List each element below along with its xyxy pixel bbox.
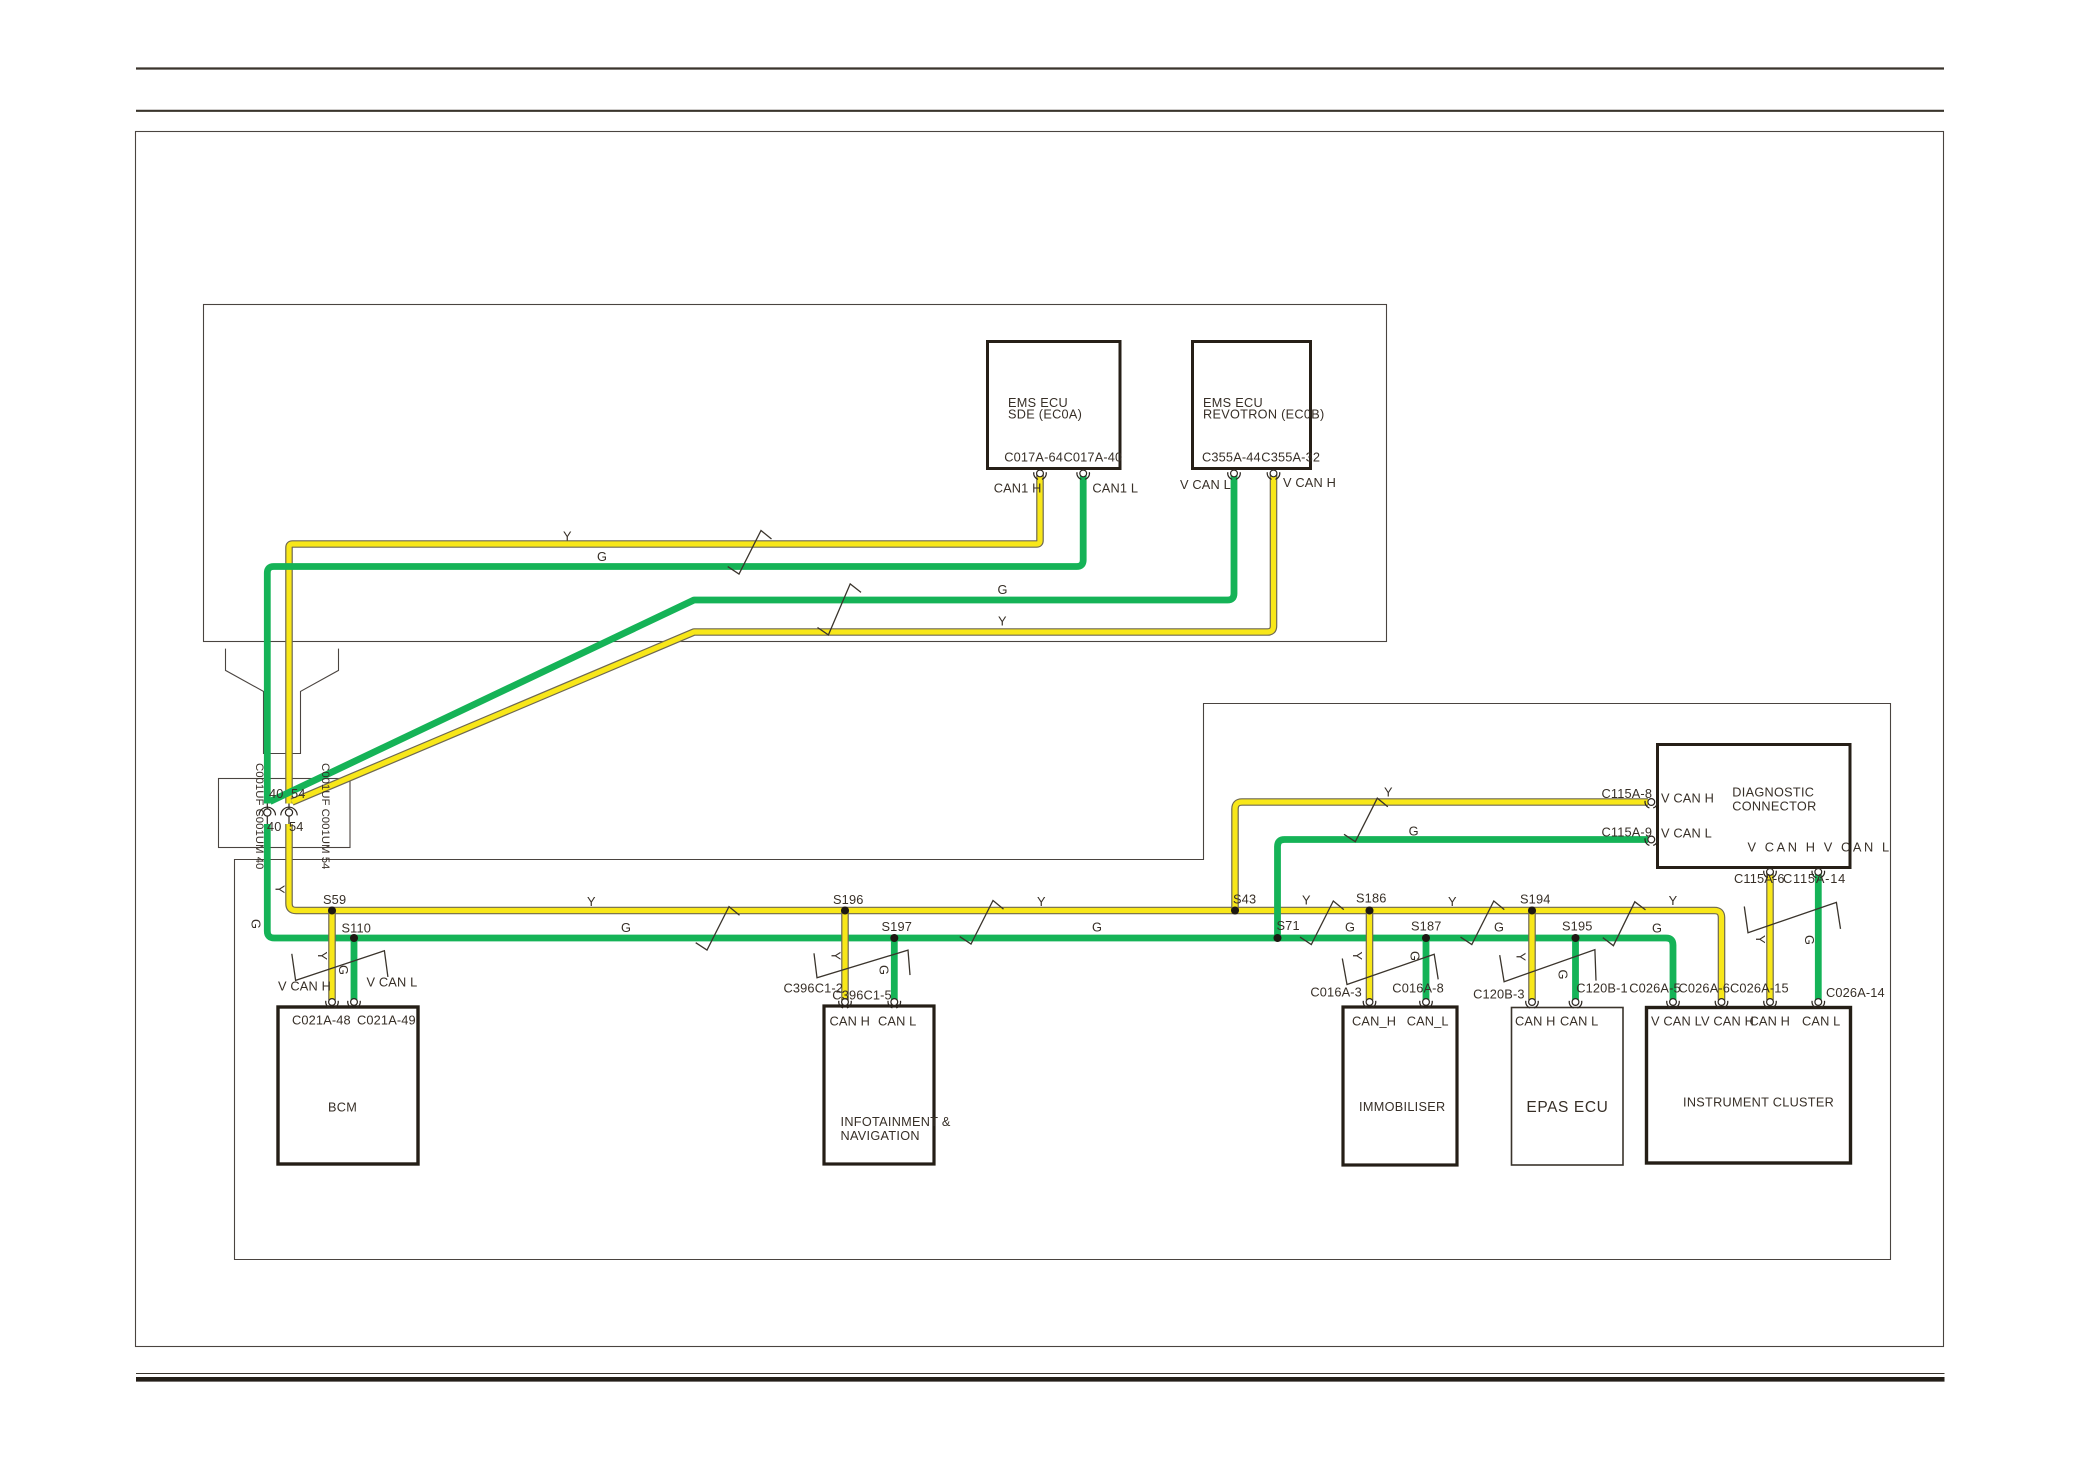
wire Y drop S59 to BCM C021A-48 [328, 911, 336, 1001]
wire V CAN H (EMS REVOTRON C355A-32 diagonal to connector pin 54) [292, 474, 1274, 802]
svg-text:Y: Y [1350, 952, 1365, 961]
box BCM [278, 1007, 418, 1164]
svg-text:C115A-14: C115A-14 [1783, 871, 1846, 886]
svg-text:C017A-40: C017A-40 [1064, 450, 1123, 465]
box EPAS ECU [1512, 1008, 1624, 1166]
terminal C355A-44 [1228, 470, 1241, 479]
svg-text:Y: Y [273, 885, 288, 894]
box INSTRUMENT CLUSTER [1647, 1008, 1851, 1164]
svg-text:S195: S195 [1562, 919, 1593, 934]
top rule 1 [136, 67, 1944, 69]
terminal C026A-6 [1715, 999, 1728, 1008]
svg-text:40: 40 [267, 819, 282, 834]
terminal C115A-14 [1812, 869, 1825, 878]
svg-text:C396C1-5: C396C1-5 [832, 988, 892, 1003]
svg-text:Y: Y [1753, 935, 1768, 944]
svg-text:C026A-5: C026A-5 [1629, 980, 1681, 995]
top harness box [204, 305, 1387, 642]
wire Y drop S196 to infotainment C396C1-2 [841, 911, 849, 1001]
svg-text:C001UF C001UM 40: C001UF C001UM 40 [253, 763, 265, 869]
svg-text:G: G [621, 920, 631, 935]
svg-text:G: G [998, 582, 1008, 597]
terminal C355A-32 [1267, 470, 1280, 479]
svg-text:C016A-8: C016A-8 [1392, 981, 1444, 996]
svg-text:S59: S59 [323, 892, 346, 907]
wire G drop C115A-14 to instrument cluster C026A-14 [1815, 871, 1822, 1000]
node S186 [1366, 907, 1374, 915]
twist marker immobiliser drops [1342, 954, 1438, 984]
bottom rule thick [136, 1377, 1945, 1382]
svg-text:V CAN H: V CAN H [1283, 475, 1336, 490]
terminal C021A-48 [326, 999, 339, 1008]
svg-text:V CAN L: V CAN L [1661, 826, 1712, 841]
twist marker pair CAN1 [728, 531, 772, 575]
wire Y main bus (connector pin 54 down to S59 corner, across to instrument cluster C026A-6) [289, 824, 1722, 1000]
svg-text:V CAN L: V CAN L [1180, 477, 1231, 492]
svg-text:G: G [1409, 824, 1419, 839]
twist marker bus S187-S194 [1461, 901, 1505, 945]
terminal C021A-49 [348, 999, 361, 1008]
svg-text:54: 54 [289, 819, 304, 834]
svg-text:G: G [1092, 920, 1102, 935]
svg-text:C115A-6: C115A-6 [1734, 871, 1785, 886]
wire V CAN L (EMS REVOTRON C355A-44 diagonal to connector pin 40) [270, 474, 1234, 802]
twist marker infotainment drops [814, 950, 910, 978]
yellow drops redrawn over green bus [332, 911, 1532, 1001]
svg-text:C016A-3: C016A-3 [1310, 985, 1362, 1000]
svg-text:C355A-44: C355A-44 [1202, 450, 1261, 465]
box EMS ECU SDE (EC0A) [988, 342, 1121, 469]
svg-text:Y: Y [587, 894, 596, 909]
box DIAGNOSTIC CONNECTOR [1658, 745, 1851, 868]
twist marker diagnostic drops [1744, 902, 1840, 932]
svg-text:CAN H: CAN H [830, 1014, 871, 1029]
svg-text:CAN H: CAN H [1750, 1014, 1791, 1029]
svg-text:C115A-8: C115A-8 [1602, 786, 1653, 801]
svg-text:G: G [249, 919, 264, 929]
terminal C016A-3 [1363, 999, 1376, 1008]
svg-text:INSTRUMENT CLUSTER: INSTRUMENT CLUSTER [1683, 1096, 1834, 1110]
wire Y drop S194 to EPAS C120B-3 [1528, 911, 1536, 1001]
box INFOTAINMENT & NAVIGATION [824, 1006, 934, 1164]
terminal C396C1-2 [839, 999, 852, 1008]
svg-text:V CAN L: V CAN L [367, 975, 418, 990]
svg-text:SDE (EC0A): SDE (EC0A) [1008, 408, 1082, 422]
twist marker bus S71-S186 [1300, 901, 1344, 945]
svg-text:INFOTAINMENT &: INFOTAINMENT & [841, 1115, 951, 1129]
svg-text:S186: S186 [1356, 891, 1387, 906]
node S43 [1231, 907, 1239, 915]
svg-text:54: 54 [291, 786, 306, 801]
twist marker bus S196-S43 [960, 901, 1004, 945]
svg-text:V CAN L: V CAN L [1651, 1014, 1702, 1029]
box IMMOBILISER [1343, 1007, 1457, 1165]
svg-text:DIAGNOSTIC: DIAGNOSTIC [1732, 786, 1814, 800]
svg-text:CAN1 H: CAN1 H [994, 481, 1042, 496]
svg-text:V CAN H V CAN L: V CAN H V CAN L [1748, 840, 1892, 855]
svg-text:C026A-14: C026A-14 [1826, 985, 1885, 1000]
svg-text:NAVIGATION: NAVIGATION [841, 1129, 920, 1143]
svg-text:S110: S110 [342, 921, 372, 936]
terminal C115A-6 [1764, 869, 1777, 878]
wire G drop S110 to BCM C021A-49 [351, 938, 358, 1000]
svg-text:C026A-15: C026A-15 [1730, 980, 1789, 995]
node S197 [890, 934, 898, 942]
svg-text:CAN_H: CAN_H [1352, 1014, 1396, 1029]
svg-text:G: G [1556, 970, 1571, 980]
twist marker pair C115A-8/9 [1344, 798, 1388, 842]
wire Y drop C115A-6 to instrument cluster C026A-15 [1766, 871, 1774, 1000]
svg-text:Y: Y [1448, 894, 1457, 909]
svg-text:S196: S196 [833, 892, 864, 907]
svg-text:G: G [1345, 920, 1355, 935]
wire Y drop S186 to immobiliser C016A-3 [1366, 911, 1374, 1001]
twist marker pair V CAN (EC0B) [818, 584, 862, 635]
twist marker bus S110-S196 [696, 907, 740, 951]
svg-text:V CAN H: V CAN H [1661, 791, 1714, 806]
harness funnel symbol [226, 649, 339, 754]
node S71 [1274, 934, 1282, 942]
twist marker bus S195-corner [1603, 902, 1646, 946]
node S187 [1422, 934, 1430, 942]
svg-text:CAN H: CAN H [1515, 1014, 1556, 1029]
svg-text:G: G [1652, 921, 1662, 936]
svg-text:S43: S43 [1233, 892, 1256, 907]
node S194 [1528, 907, 1536, 915]
svg-text:C001UF C001UM 54: C001UF C001UM 54 [319, 763, 331, 869]
svg-text:CAN L: CAN L [1560, 1014, 1598, 1029]
box EMS ECU REVOTRON (EC0B) [1193, 342, 1311, 469]
pin 54 of C001UF/C001UM [281, 804, 297, 825]
svg-text:S194: S194 [1520, 892, 1551, 907]
terminal C017A-64 [1034, 470, 1047, 479]
svg-text:C120B-3: C120B-3 [1473, 987, 1525, 1002]
svg-text:C021A-49: C021A-49 [357, 1013, 416, 1028]
outer border box [136, 132, 1944, 1347]
node S196 [841, 907, 849, 915]
twist marker BCM drops [292, 951, 388, 981]
svg-text:REVOTRON (EC0B): REVOTRON (EC0B) [1203, 408, 1325, 422]
svg-text:G: G [336, 965, 351, 975]
top rule 2 [136, 110, 1944, 112]
svg-text:C355A-32: C355A-32 [1261, 450, 1320, 465]
terminal C017A-40 [1077, 470, 1090, 479]
bottom rule thin [136, 1373, 1945, 1375]
terminal C115A-8 [1645, 799, 1658, 808]
svg-text:S71: S71 [1277, 918, 1300, 933]
terminal C026A-5 [1667, 999, 1680, 1008]
wire G branch diagnostic C115A-9 to S71 [1278, 840, 1649, 939]
wire Y branch S43 to diagnostic connector C115A-8 [1235, 802, 1648, 911]
svg-text:CAN_L: CAN_L [1407, 1014, 1449, 1029]
pin 40 of C001UF/C001UM [259, 804, 275, 825]
svg-text:Y: Y [1669, 893, 1678, 908]
terminal C396C1-5 [888, 999, 901, 1008]
node S195 [1572, 934, 1580, 942]
svg-text:Y: Y [829, 952, 844, 961]
terminal C120B-1 [1569, 999, 1582, 1008]
svg-text:Y: Y [315, 952, 330, 961]
svg-text:V CAN H: V CAN H [1701, 1014, 1754, 1029]
svg-text:CAN L: CAN L [878, 1014, 916, 1029]
svg-text:S187: S187 [1411, 919, 1442, 934]
terminal C115A-9 [1645, 836, 1658, 845]
svg-text:Y: Y [1384, 785, 1393, 800]
wire G drop S197 to infotainment C396C1-5 [891, 938, 898, 1000]
svg-text:G: G [1408, 951, 1423, 961]
svg-text:IMMOBILISER: IMMOBILISER [1359, 1100, 1446, 1114]
svg-text:CONNECTOR: CONNECTOR [1732, 800, 1816, 814]
lower area step polygon [235, 704, 1891, 1260]
terminal C016A-8 [1420, 999, 1433, 1008]
svg-text:C120B-1: C120B-1 [1576, 980, 1628, 995]
svg-text:G: G [1494, 920, 1504, 935]
wire G drop S187 to immobiliser C016A-8 [1423, 938, 1430, 1000]
svg-text:BCM: BCM [328, 1101, 357, 1115]
svg-text:Y: Y [1514, 953, 1529, 962]
svg-text:G: G [597, 549, 607, 564]
svg-text:G: G [1802, 935, 1817, 945]
svg-text:V CAN H: V CAN H [278, 979, 331, 994]
node S59 [328, 907, 336, 915]
wire CAN1 H (EMS SDE C017A-64 to connector pin 54) [289, 474, 1040, 804]
svg-text:Y: Y [1302, 893, 1311, 908]
svg-text:C021A-48: C021A-48 [292, 1013, 351, 1028]
svg-text:C115A-9: C115A-9 [1602, 825, 1653, 840]
svg-text:Y: Y [998, 614, 1007, 629]
inline connector C001UF/C001UM box [219, 779, 351, 848]
svg-text:CAN L: CAN L [1802, 1014, 1840, 1029]
svg-text:C017A-64: C017A-64 [1004, 450, 1063, 465]
svg-text:S197: S197 [882, 919, 913, 934]
wire CAN1 L (EMS SDE C017A-40 to connector pin 40) [267, 474, 1083, 804]
node S110 [350, 934, 358, 942]
svg-text:EPAS ECU: EPAS ECU [1526, 1099, 1608, 1116]
twist marker EPAS drops [1500, 950, 1596, 982]
wire G drop S195 to EPAS C120B-1 [1572, 938, 1579, 1000]
svg-text:CAN1 L: CAN1 L [1092, 481, 1138, 496]
svg-text:Y: Y [1037, 894, 1046, 909]
terminal C026A-14 [1812, 999, 1825, 1008]
terminal C120B-3 [1526, 999, 1539, 1008]
svg-text:40: 40 [269, 786, 284, 801]
svg-text:Y: Y [563, 529, 572, 544]
wire G main bus (connector pin 40 down to S110 corner, across to instrument cluster C026A-5) [267, 824, 1673, 1000]
svg-text:C026A-6: C026A-6 [1679, 980, 1731, 995]
terminal C026A-15 [1764, 999, 1777, 1008]
svg-text:G: G [877, 965, 892, 975]
